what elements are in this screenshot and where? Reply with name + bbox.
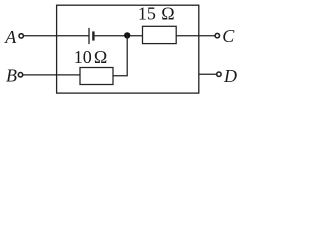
svg-text:Ω: Ω xyxy=(94,47,107,67)
svg-text:C: C xyxy=(222,26,235,46)
svg-text:D: D xyxy=(223,66,237,86)
wire box edge to D xyxy=(199,73,217,75)
wire B to 10-ohm resistor xyxy=(23,74,80,76)
svg-text:10: 10 xyxy=(74,47,92,67)
wire: riser from junction down and left to 10-ohm resistor xyxy=(113,35,127,75)
box outline (conductor rectangle enclosing circuit) xyxy=(57,5,199,93)
wire battery to 15-ohm resistor xyxy=(95,35,143,37)
terminal A xyxy=(19,34,23,38)
wire 15-ohm resistor to C xyxy=(176,35,215,37)
terminal C xyxy=(215,33,219,37)
svg-text:B: B xyxy=(6,66,17,86)
wire A to battery xyxy=(24,35,89,37)
resistor 10 ohm (box symbol) xyxy=(80,68,113,85)
svg-text:15: 15 xyxy=(138,4,156,24)
terminal B xyxy=(18,73,22,77)
resistor 15 ohm (box symbol) xyxy=(143,26,177,43)
terminal D xyxy=(217,72,221,76)
battery cell: long plate xyxy=(88,28,90,44)
svg-text:A: A xyxy=(4,27,17,47)
battery cell: short plate xyxy=(92,31,94,40)
svg-text:Ω: Ω xyxy=(161,4,174,24)
junction node dot xyxy=(124,32,130,38)
